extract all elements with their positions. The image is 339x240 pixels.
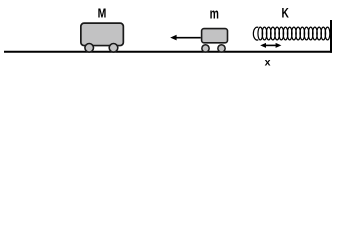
cart m left wheel	[202, 45, 209, 52]
spring K coils	[258, 27, 330, 40]
spring left end half-loop	[253, 27, 258, 40]
compression double arrow left head	[260, 43, 266, 48]
cart M right wheel	[109, 44, 118, 53]
svg-text:M: M	[98, 6, 107, 20]
velocity arrow shaft	[176, 37, 201, 39]
wall	[330, 20, 332, 53]
cart M body	[81, 23, 124, 45]
svg-text:m: m	[210, 5, 219, 22]
cart m body	[202, 29, 228, 43]
compression double arrow right head	[276, 43, 282, 48]
cart M left wheel	[85, 44, 94, 53]
svg-text:x: x	[265, 57, 271, 69]
velocity arrow head	[170, 35, 176, 41]
compression double arrow shaft	[263, 44, 279, 46]
ground	[4, 51, 332, 53]
svg-text:K: K	[282, 5, 290, 21]
cart m right wheel	[218, 45, 225, 52]
